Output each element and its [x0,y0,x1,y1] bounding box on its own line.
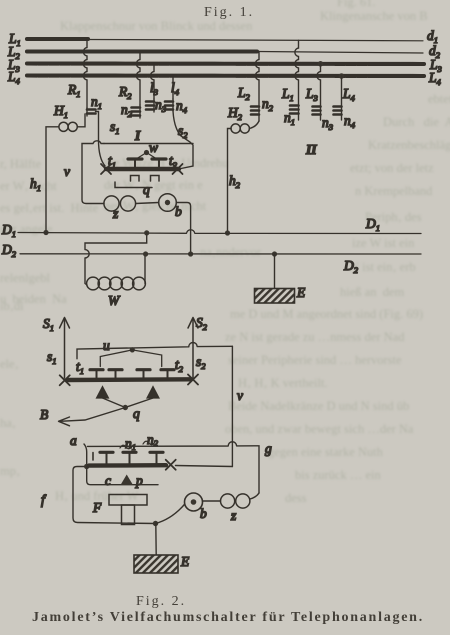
line L3 [7,57,442,74]
strip t (fig2 bar2) [89,463,166,468]
svg-text:q: q [133,406,140,421]
wire drop from L2 to coil K2 [255,52,259,122]
contact t1x (fig2 left) [60,359,84,385]
node w [137,140,158,159]
key z (fig2) [203,493,260,523]
strip c p with contact triangle [87,467,158,489]
svg-text:dess: dess [285,491,307,505]
node and earth E (fig2) [134,521,190,573]
svg-text:ebtet:: ebtet: [428,92,450,106]
plug P2 [152,159,166,167]
svg-text:n Krempelband: n Krempelband [355,184,433,198]
plug P3 (fig2 bar1) [137,370,150,378]
svg-text:oben, und zwar bewegt sich …de: oben, und zwar bewegt sich …der Na [225,422,414,436]
strip t (bar) [106,167,179,171]
svg-text:er W‚ nicht: er W‚ nicht [0,179,57,193]
contact t2x (fig2 right) [175,357,198,385]
plug P1 (fig2 bar2) [93,452,113,463]
plug P4 (fig2 bar1) [161,370,174,378]
svg-text:relenlgebl: relenlgebl [0,271,51,285]
svg-text:Kratzenbeschläge vers: Kratzenbeschläge vers [368,138,450,152]
wire s1 [96,112,120,167]
svg-text:Durch die An: Durch die An [383,115,450,129]
bus D1 [1,216,421,239]
coil l3 [146,80,166,114]
svg-text:b: b [175,204,182,219]
svg-text:seiner Peripherie sind … hervo: seiner Peripherie sind … hervorste [228,353,402,367]
lamp b (fig2) [156,493,208,524]
strip q [115,182,152,197]
wire to B with arrow [40,407,125,426]
svg-text:w: w [149,140,158,155]
wire lamp b to D2 [176,203,193,257]
node a [70,433,89,469]
node q (fig2) [103,398,154,421]
svg-text:etzt; von der letz: etzt; von der letz [350,161,434,175]
svg-text:Fig. 61.: Fig. 61. [337,0,376,9]
coil R2 [118,84,140,119]
node on L3 [318,61,324,67]
wire drop from L3 to coil l3 [150,64,154,100]
svg-text:c: c [105,473,111,488]
contact triangle c2 [147,387,159,399]
svg-text:mp‚: mp‚ [0,464,20,478]
contact t1 [101,153,116,174]
svg-text:bis zurück … ein: bis zurück … ein [295,468,381,482]
earth E (fig1) [255,251,307,303]
svg-text:r, Hälfte: r, Hälfte [0,157,42,171]
svg-text:a: a [70,433,77,448]
svg-text:E: E [180,554,190,569]
svg-text:b: b [200,506,207,521]
wire v (fig2) [232,346,243,466]
svg-text:v: v [64,164,70,179]
contact triangle c1 [97,387,109,399]
svg-text:z: z [230,508,237,523]
wire drop from L4 to coil C4 [341,76,343,120]
svg-text:u: u [103,338,110,353]
svg-text:ib‚di: ib‚di [0,299,24,313]
svg-text:ze N ist gerade zu …nmess der: ze N ist gerade zu …nmess der Nad [225,330,405,344]
wire s2 [173,111,193,169]
arrow S1 [43,316,70,378]
svg-text:ize W ist ein: ize W ist ein [352,236,415,250]
svg-text:W: W [108,293,121,308]
svg-text:N ist ein‚ erb: N ist ein‚ erb [350,260,416,274]
svg-text:F: F [92,500,102,515]
svg-text:Fig. 2.: Fig. 2. [136,594,186,609]
coil C3 [305,86,333,132]
svg-text:na‚nndervor: na‚nndervor [200,245,262,259]
wire drop from line d1 to coil C1 [295,40,299,120]
key z (fig1) [104,196,136,221]
plug P2 (fig2 bar2) [123,452,136,463]
wire drop from L1 to coil R1 [83,39,87,108]
relay W [85,230,149,308]
wire bar2 to v [176,466,233,467]
svg-text:v: v [237,388,243,403]
lamp b (fig1) [136,194,182,219]
contact t2 [169,153,183,174]
svg-text:gegen eine starke Nuth: gegen eine starke Nuth [268,445,384,459]
phone F [92,495,147,525]
wire drop from L4 to coil l4 [172,76,174,100]
coil l4 [165,80,188,115]
wire f [41,467,156,524]
svg-text:II: II [305,142,317,157]
jack H1 [53,103,85,131]
wire drop from L2 to coil R2 [136,52,140,106]
plug P1 (fig2 bar1) [90,370,103,378]
svg-text:g: g [265,441,272,456]
plug P1 [128,159,142,167]
svg-text:z: z [112,206,119,221]
contact hooks under bar [131,176,160,182]
plug P2 (fig2 bar1) [109,370,122,378]
wire u [77,338,232,367]
springs n1 n2 (fig2) [120,432,159,452]
bus D2 [1,242,421,275]
wire h1 [30,127,59,235]
arrow S2 [188,315,208,378]
svg-text:p: p [135,473,143,488]
svg-text:H‚ H‚ K vertheilt.: H‚ H‚ K vertheilt. [238,376,328,390]
wire a to g [88,442,260,493]
coil C1 [281,86,299,127]
wire h2 [225,129,241,236]
coil K2 [237,85,274,115]
svg-text:me D und M angeordnet sind (Fi: me D und M angeordnet sind (Fig. 69) [230,307,423,321]
strip t (fig2 bar1) [67,377,191,382]
wire drop from L3 to coil C3 [317,64,321,120]
svg-text:q: q [143,182,150,197]
coil R1 [67,82,102,116]
svg-text:B: B [40,407,48,422]
plug P3 (fig2 bar2) [150,452,163,463]
contact x (fig2 bar2) [166,460,176,470]
svg-text:I: I [134,128,141,143]
svg-text:hieß an dem: hieß an dem [340,285,404,299]
jack H2 [227,105,259,133]
wire v (bracket to key) [64,141,193,204]
line L1 [8,28,438,48]
svg-text:Beide Nadelkränze D und N sind: Beide Nadelkränze D und N sind üb [228,399,409,413]
svg-text:Klingenansche von B: Klingenansche von B [320,9,428,23]
svg-text:ha‚: ha‚ [0,416,16,430]
svg-text:ele‚: ele‚ [0,357,19,371]
line L2 [7,43,441,61]
svg-text:Fig. 1.: Fig. 1. [204,5,254,20]
svg-text:der W‚ N gegt ein e: der W‚ N gegt ein e [104,178,203,192]
line L4 [7,69,442,87]
svg-text:Klappenschnur von Blinck und d: Klappenschnur von Blinck und dessen [60,19,253,33]
svg-text:E: E [296,285,306,300]
coil C4 [334,86,356,130]
svg-text:Jamolet’s Vielfachumschalter f: Jamolet’s Vielfachumschalter für Telepho… [32,610,424,625]
node on L4 [339,73,345,79]
